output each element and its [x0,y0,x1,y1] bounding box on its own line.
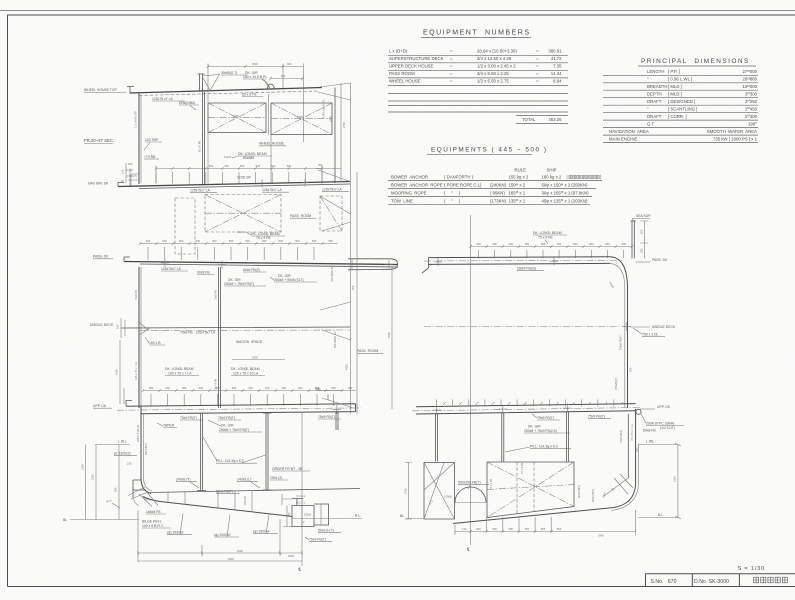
svg-text:250: 250 [629,367,633,372]
svg-text:L.W.L: L.W.L [118,440,127,444]
svg-text:180 kg x 2: 180 kg x 2 [542,175,562,180]
right dim 2250 [675,443,681,519]
svg-text:500: 500 [229,239,234,243]
svg-text:G.T.: G.T. [647,122,655,127]
svg-text:1.5 x 6.45 STF: 1.5 x 6.45 STF [134,111,138,128]
svg-text:S = 1/30: S = 1/30 [738,566,765,572]
svg-text:240x8 (T): 240x8 (T) [176,478,191,482]
svg-text:BOWER ANCHOR: BOWER ANCHOR [391,175,428,180]
svg-text:SUPERSTRUCTURE DECK: SUPERSTRUCTURE DECK [389,56,444,61]
svg-text:50φ x 150M x 2 (250KN): 50φ x 150M x 2 (250KN) [542,182,588,187]
small dims left of wall at nav dk [126,163,130,186]
svg-text:FR.20~27 SEC.: FR.20~27 SEC. [84,138,114,143]
equipments row1 japanese note [567,175,601,180]
bottom dim line 2 [138,560,302,562]
svg-text:250x8 + 90x8 (SLT): 250x8 + 90x8 (SLT) [274,278,304,282]
svg-text:1100: 1100 [404,488,408,494]
nav bri dk deck line [118,182,350,187]
pass dk deck line [124,262,398,265]
svg-text:65 x 6 FB: 65 x 6 FB [198,141,202,152]
svg-text:PRINCIPAL DIMENSIONS: PRINCIPAL DIMENSIONS [641,58,750,65]
svg-text:50x6 (H.T): 50x6 (H.T) [318,529,334,533]
svg-text:2350: 2350 [81,464,85,470]
svg-text:250x8 + 75x9 FB(T): 250x8 + 75x9 FB(T) [219,428,249,432]
svg-text:BOWER ANCHOR ROPE: BOWER ANCHOR ROPE [391,183,443,188]
svg-text:360 FB(T): 360 FB(T) [144,443,148,455]
pillar left x436 [436,414,438,462]
pass dk deck strake right drawing [429,257,611,265]
svg-text:15.04(T): 15.04(T) [127,174,137,178]
svg-text:R.O.C.L: R.O.C.L [296,501,306,505]
svg-text:DRAFT: DRAFT [647,99,662,104]
svg-text:RULE: RULE [515,168,527,173]
svg-text:BILGE KEEL: BILGE KEEL [142,520,162,524]
svg-text:500: 500 [212,239,217,243]
svg-text:500: 500 [287,164,292,168]
floor verticals [168,491,252,513]
svg-text:900: 900 [281,74,286,78]
svg-text:500: 500 [605,242,610,246]
svg-text:75x9 FB(T): 75x9 FB(T) [619,430,623,443]
svg-text:( DANFORTH ): ( DANFORTH ) [444,175,474,180]
svg-text:[ MLD ]: [ MLD ] [668,84,682,89]
svg-text:500: 500 [165,386,170,390]
svg-text:BREADTH: BREADTH [647,84,668,89]
svg-text:PASS. DK: PASS. DK [93,255,109,259]
svg-text:500: 500 [224,164,229,168]
tall dim line x341 [340,83,342,182]
svg-text:380: 380 [640,248,644,253]
svg-text:4600: 4600 [228,557,234,561]
svg-text:140: 140 [462,527,467,531]
beam end marks nav deck [156,172,322,184]
svg-text:230: 230 [127,462,132,466]
svg-text:DRA(NBA): DRA(NBA) [179,101,195,105]
svg-text:B.L.: B.L. [355,514,361,518]
svg-text:C.O.C.L: C.O.C.L [296,494,306,498]
svg-text:28.64 x (10.00+3.30): 28.64 x (10.00+3.30) [477,48,517,53]
svg-text:UPP. DK: UPP. DK [93,404,107,408]
svg-text:PASS ROOM: PASS ROOM [389,71,415,76]
tall dim line x357 [356,172,358,414]
pass room window x-box [205,195,281,233]
svg-text:60x6 FB(2): 60x6 FB(2) [243,268,260,272]
svg-text:L x (B+D): L x (B+D) [389,48,408,53]
bottom dim line 3000/1800 [138,510,302,562]
LWL line [95,444,130,446]
svg-text:4450: 4450 [345,364,349,370]
svg-text:TAPER: TAPER [163,424,175,428]
svg-text:2400: 2400 [598,534,604,538]
svg-text:500: 500 [492,527,497,531]
svg-text:500: 500 [492,242,497,246]
svg-text:2250: 2250 [673,476,677,482]
svg-text:500: 500 [525,242,530,246]
svg-text:500: 500 [182,386,187,390]
svg-text:65x685: 65x685 [243,156,254,160]
svg-text:UPPER DECK HOUSE: UPPER DECK HOUSE [389,63,434,68]
svg-text:500: 500 [476,527,481,531]
wheel house window box 1 [208,103,266,133]
svg-text:500: 500 [215,386,220,390]
svg-text:PASS ROOM: PASS ROOM [357,349,378,353]
pillar 1 under upp dk [197,413,206,491]
svg-text:8.94: 8.94 [553,78,562,83]
svg-text:500: 500 [328,239,333,243]
svg-text:(φ) T: (φ) T [106,499,112,503]
svg-text:21x19: 21x19 [237,230,245,234]
svg-text:TOW LINE: TOW LINE [391,198,413,203]
svg-text:2M250: 2M250 [745,99,758,104]
svg-text:500: 500 [162,239,167,243]
svg-text:SEA SUP: SEA SUP [636,214,651,218]
svg-text:500: 500 [265,386,270,390]
svg-text:735 kW [ 1000 PS ] x 1: 735 kW [ 1000 PS ] x 1 [713,137,758,142]
svg-text:900: 900 [287,62,292,66]
wheel house top deck inner line [139,91,318,96]
svg-text:500: 500 [525,527,530,531]
svg-text:[ P.P. ]: [ P.P. ] [668,69,680,74]
svg-text:200A STPC S(MA): 200A STPC S(MA) [646,422,674,426]
centerline rudder vertical [301,412,303,566]
svg-text:500: 500 [557,242,562,246]
svg-text:950 ABNE B.L.: 950 ABNE B.L. [333,330,337,348]
svg-text:500: 500 [271,164,276,168]
svg-text:75x9 FB(T): 75x9 FB(T) [318,415,335,419]
svg-text:125x75x7 LA: 125x75x7 LA [262,188,283,192]
svg-text:500: 500 [282,386,287,390]
svg-text:150 x B: 150 x B [149,341,161,345]
svg-text:500: 500 [312,239,317,243]
svg-text:500: 500 [209,164,214,168]
wheel house top deck line [130,88,322,94]
svg-text:WAGON SPACE: WAGON SPACE [236,340,263,344]
svg-text:(173KN): (173KN) [490,198,507,203]
skeg box structure [292,506,314,527]
svg-text:[ MLD ]: [ MLD ] [668,92,682,97]
B.L. line right of skeg [329,518,363,520]
svg-text:500: 500 [331,386,336,390]
svg-text:500: 500 [245,239,250,243]
svg-text:155 kg x 2: 155 kg x 2 [509,175,529,180]
svg-text:1/2 x 6.50 x 2.75: 1/2 x 6.50 x 2.75 [477,78,509,83]
svg-text:PASS ROOM: PASS ROOM [290,214,311,218]
svg-text:500: 500 [557,527,562,531]
svg-text:50x6 FB(T): 50x6 FB(T) [216,490,233,494]
svg-text:380.91: 380.91 [548,48,562,53]
svg-text:DK. GIR: DK. GIR [528,425,541,429]
svg-text:125x75x7 LA: 125x75x7 LA [190,189,211,193]
svg-text:(φ) 1500x4: (φ) 1500x4 [253,530,270,534]
cross mark upp dk band [333,405,341,414]
svg-text:℄: ℄ [466,547,470,552]
svg-text:75x9 FB(T): 75x9 FB(T) [309,538,326,542]
svg-text:500: 500 [541,242,546,246]
svg-text:(φ) 1530x2: (φ) 1530x2 [167,531,184,535]
svg-text:750 x 3 DL: 750 x 3 DL [642,333,659,337]
svg-text:90x8 FB(T): 90x8 FB(T) [591,489,595,502]
middle deck line [121,327,350,328]
svg-text:(240KN): (240KN) [490,183,507,188]
svg-text:2250: 2250 [329,116,333,122]
wheel house front wall [138,93,140,184]
pillar 2 under upp dk [263,413,272,490]
left dim chain wagon space [120,340,124,404]
svg-text:500: 500 [232,386,237,390]
svg-text:3/4 x 12.50 x 4.45: 3/4 x 12.50 x 4.45 [477,56,512,61]
svg-text:WHEEL HOUSE: WHEEL HOUSE [389,78,421,83]
svg-text:7.35: 7.35 [553,63,562,68]
svg-text:940: 940 [128,162,133,166]
side shell lower right [635,409,637,485]
svg-text:26M880: 26M880 [743,76,758,81]
svg-text:MIDDLE DECK: MIDDLE DECK [90,323,114,327]
svg-text:MOORING ROPE: MOORING ROPE [391,190,427,195]
svg-text:150: 150 [287,512,291,517]
svg-text:30φ x 165M x 1 (97.9KN): 30φ x 165M x 1 (97.9KN) [542,190,590,195]
svg-text:3M300: 3M300 [745,91,758,96]
svg-text:3500: 3500 [252,62,258,66]
svg-text:500: 500 [573,242,578,246]
svg-text:B.L.: B.L. [658,513,664,517]
svg-text:DRAFT: DRAFT [647,114,662,119]
svg-text:(φ) 2000x2: (φ) 2000x2 [214,533,231,537]
svg-text:75x9 FB: 75x9 FB [214,290,218,300]
svg-text:[ 0.96 L.WL ]: [ 0.96 L.WL ] [668,77,692,82]
svg-text:S (94): S (94) [126,168,133,172]
svg-text:500: 500 [248,386,253,390]
left dim 2350 [85,445,87,520]
bracket details left wall nav dk [128,174,139,186]
dim row above nav bri dk [156,166,322,184]
svg-text:75 x 9 FB: 75 x 9 FB [520,463,524,474]
keel / bilge details [133,480,146,497]
svg-text:75x9 FB: 75x9 FB [134,290,138,300]
pass room left dashed locker [175,198,195,254]
200A STPC pipe circle at deck edge [636,409,641,414]
pillar right x566 [566,412,568,462]
svg-text:1500: 1500 [233,114,239,118]
wheelhouse aft wall [334,88,336,184]
upper deck strake left drawing [126,404,356,414]
svg-text:D.No. SK-3000: D.No. SK-3000 [694,579,729,585]
svg-text:500: 500 [298,386,303,390]
svg-text:90x8 FB: 90x8 FB [197,271,210,275]
title block box [646,574,795,587]
svg-text:125x75x7 LA: 125x75x7 LA [322,188,343,192]
window bay mullions [208,133,271,184]
middle deck dash-dot right drawing [424,326,619,328]
svg-text:PILL. 114.3φ x 6.0: PILL. 114.3φ x 6.0 [216,459,244,463]
tall dim line x350 [350,83,352,414]
svg-text:[ CORR. ]: [ CORR. ] [668,114,687,119]
svg-text:150x9: 150x9 [304,513,312,517]
border bottom line [8,586,795,588]
svg-text:SHIP: SHIP [547,168,557,173]
svg-text:EQUIPMENT NUMBERS: EQUIPMENT NUMBERS [423,30,531,37]
pass dk rounded corner to shell [610,257,628,287]
svg-text:1050: 1050 [115,369,119,375]
svg-text:75x9 FB(T): 75x9 FB(T) [180,416,197,420]
bulwark stanchion above pass dk [631,221,637,259]
svg-text:165x(B)(T): 165x(B)(T) [614,377,618,390]
svg-text:240x8 (L): 240x8 (L) [237,478,251,482]
equipment numbers total [516,115,568,117]
frame tick marks on upp dk [437,400,614,407]
svg-text:165x8 FB: 165x8 FB [146,510,161,514]
svg-text:(36x4 FB(2)): (36x4 FB(2)) [517,267,536,271]
scan edge line top [0,10,795,12]
title block company kanji [754,577,788,583]
svg-text:BL: BL [400,514,404,518]
svg-text:(S 2325x2): (S 2325x2) [114,452,131,456]
dim 3500 top [208,64,304,143]
svg-text:DK. GIR: DK. GIR [221,424,234,428]
svg-text:21x19: 21x19 [224,155,232,159]
svg-text:500: 500 [256,164,261,168]
svg-text:1,800 ABNE B.L.: 1,800 ABNE B.L. [322,98,326,118]
right drawing [400,214,684,552]
svg-text:WHEEL HOUSE: WHEEL HOUSE [259,142,285,146]
pass dk girder paddle right end [348,259,398,270]
bottom dim row right drawing [455,510,636,535]
bottom shell [143,497,292,517]
svg-text:75 x 9 FB: 75 x 9 FB [538,236,553,240]
svg-text:2050: 2050 [387,332,391,338]
cross mark on pass dk [161,259,226,269]
cross marks on pass dk [434,258,558,267]
skeg small dims [282,494,292,527]
left end bracket pass dk [422,258,429,273]
pillar mid x502 [502,413,504,462]
svg-text:+74 RB: +74 RB [144,155,156,159]
upper deck left step [126,401,132,407]
svg-text:124 SSP: 124 SSP [145,138,159,142]
svg-text:500: 500 [179,239,184,243]
svg-text:2M450: 2M450 [745,106,758,111]
box divider vertical [268,94,270,135]
svg-text:41.72: 41.72 [551,56,562,61]
svg-text:WHEEL HOUSE TOP: WHEEL HOUSE TOP [84,88,117,92]
svg-text:125x75x7 LA: 125x75x7 LA [161,267,182,271]
svg-text:500: 500 [476,242,481,246]
svg-text:75 x 9 FB: 75 x 9 FB [489,479,493,490]
svg-text:500: 500 [295,239,300,243]
svg-text:290x (2): 290x (2) [270,476,282,480]
tank box left [424,463,455,520]
svg-text:[ SCANTLING ]: [ SCANTLING ] [668,107,697,112]
svg-text:500: 500 [541,527,546,531]
svg-text:75x8 FB 125x75x7 LA: 75x8 FB 125x75x7 LA [180,331,216,335]
svg-text:2500: 2500 [252,356,258,360]
svg-text:℄: ℄ [298,567,302,572]
house front wall lower [138,267,140,408]
svg-text:UPP. DK: UPP. DK [657,405,671,409]
svg-text:( 95KN): ( 95KN) [490,190,505,195]
cross marks nav dk [258,179,309,188]
svg-text:TOTAL: TOTAL [522,117,536,122]
equipment numbers rows [388,48,568,85]
vertical dim 2050 between drawings [391,266,393,409]
svg-text:500: 500 [509,242,514,246]
svg-text:453.26: 453.26 [548,117,562,122]
svg-text:DK. LONGL BEAM: DK. LONGL BEAM [533,231,562,235]
svg-text:DEPTH: DEPTH [647,92,662,97]
svg-text:PILL. 114.3φ x 6.0: PILL. 114.3φ x 6.0 [530,445,558,449]
inboard frame near shell [627,414,629,478]
svg-text:2M300: 2M300 [745,114,758,119]
dim row above pass dk right drawing [471,246,632,248]
engine casing box [487,462,574,518]
svg-text:150: 150 [121,169,125,174]
svg-text:LENGTH: LENGTH [647,69,664,74]
svg-text:600: 600 [640,229,644,234]
svg-text:75x9 FB(T): 75x9 FB(T) [218,416,235,420]
svg-text:250x8 + 75x9 FB(T): 250x8 + 75x9 FB(T) [224,282,254,286]
beam arrows pass dk [148,247,314,260]
svg-text:500: 500 [622,242,627,246]
svg-text:(1/2 CUT): (1/2 CUT) [660,426,675,430]
tank dim 1100 [405,463,412,520]
svg-text:450: 450 [114,487,118,492]
upper deck strake right drawing [416,404,636,414]
svg-text:3/4 x 8.50 x 2.25: 3/4 x 8.50 x 2.25 [477,71,509,76]
long extension line centre of right drawing [470,215,472,545]
svg-text:80x8 FB: 80x8 FB [643,429,656,433]
svg-text:3000: 3000 [237,549,243,553]
half-circle manhole notch [455,487,486,503]
bulwark dims 600/380 [640,221,648,259]
left vertical dims hull [96,445,119,520]
svg-text:500: 500 [240,164,245,168]
keel bracket detail [133,491,158,506]
middle deck left dims [121,318,125,338]
svg-text:SMOOTH WATER AREA: SMOOTH WATER AREA [707,129,757,134]
wheel house front wall (house) [203,89,205,185]
svg-text:100 x 75 x 7 LA: 100 x 75 x 7 LA [168,372,192,376]
svg-text:75x9 FB(T): 75x9 FB(T) [588,415,605,419]
svg-text:L.WL: L.WL [646,440,654,444]
svg-text:65 x 6 FB: 65 x 6 FB [242,93,257,97]
svg-text:EQUIPMENTS ( 445 ~ 500 ): EQUIPMENTS ( 445 ~ 500 ) [431,147,547,154]
svg-text:S.No. 670: S.No. 670 [651,579,677,585]
mid pillar wall [219,267,221,408]
bracket at wall middle deck [139,322,150,335]
svg-text:BL: BL [63,518,67,522]
bilge curve right [614,485,636,508]
svg-text:DK. LONGL BEAM: DK. LONGL BEAM [165,367,194,371]
svg-text:500: 500 [279,239,284,243]
svg-text:MAIN ENGINE: MAIN ENGINE [609,137,638,142]
cross marks on upp dk [433,404,572,415]
svg-text:300: 300 [351,285,355,290]
extension verticals bottom dims [487,517,552,532]
svg-text:( PORE ROPE C.L): ( PORE ROPE C.L) [444,183,482,188]
shell cross tick middle deck [622,322,631,331]
svg-text:1800: 1800 [297,115,303,119]
wheel house window box 2 [271,103,332,135]
svg-text:100 x 9 B.FLT.: 100 x 9 B.FLT. [142,524,164,528]
svg-text:780 ABNE B.L.: 780 ABNE B.L. [330,264,334,282]
dim 1800 secondary [269,77,303,81]
svg-text:2750: 2750 [342,122,346,128]
svg-text:1800: 1800 [288,554,294,558]
svg-text:500: 500 [196,239,201,243]
svg-text:250x8 + 75x9 FB(2.5): 250x8 + 75x9 FB(2.5) [524,429,557,433]
dim row above upp dk [143,390,356,392]
bottom shell right drawing [453,508,614,524]
svg-text:PASS. DK: PASS. DK [652,258,668,262]
